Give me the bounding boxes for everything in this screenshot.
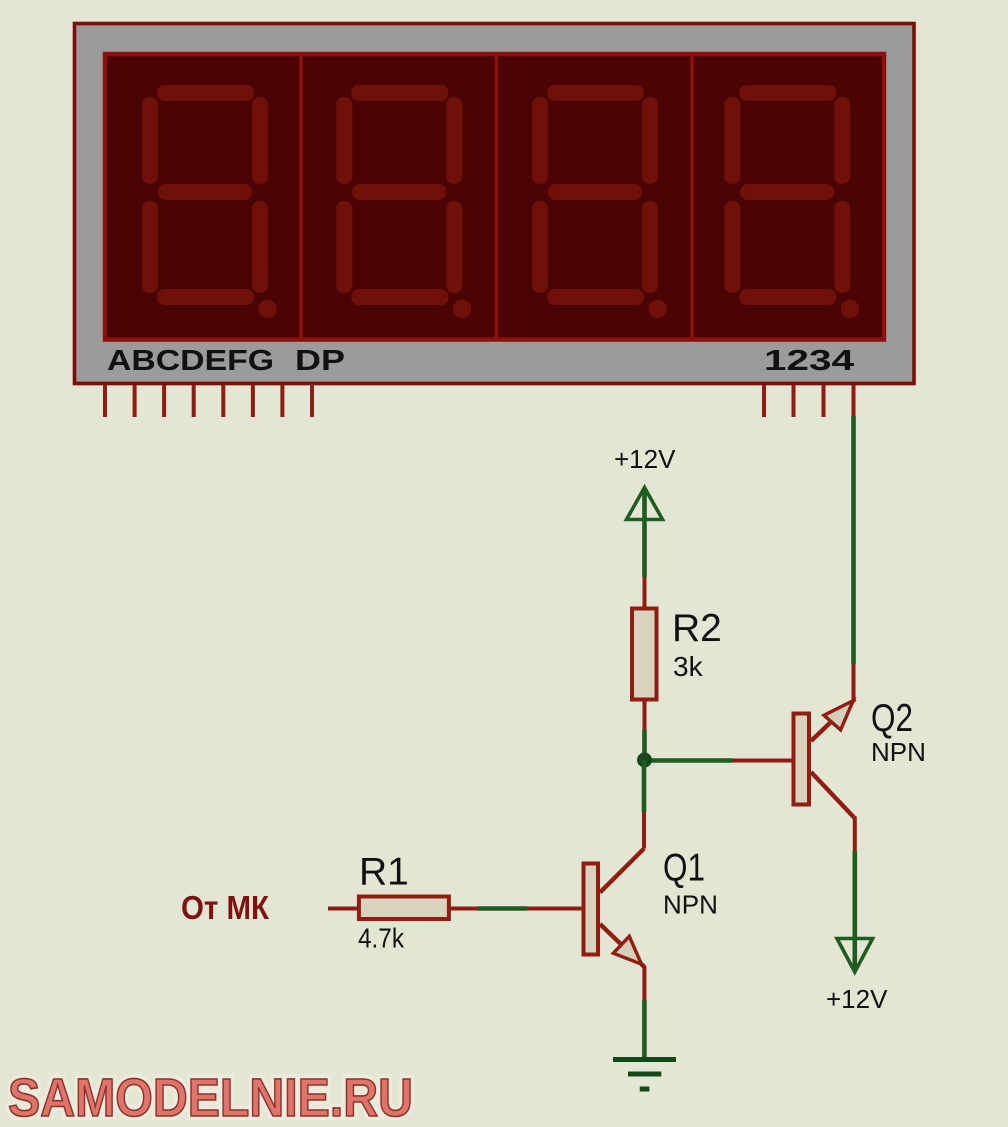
ground symbol bar 2 bbox=[628, 1072, 661, 1077]
display pin 2 bbox=[792, 385, 796, 417]
display pin 1 bbox=[762, 385, 766, 417]
transistor Q1 base pin bbox=[527, 907, 582, 911]
display pin 4 bbox=[852, 385, 856, 417]
transistor Q1 emitter diagonal bbox=[600, 924, 644, 967]
transistor Q1 base bar bbox=[584, 864, 599, 955]
svg-text:DP: DP bbox=[295, 345, 345, 377]
wire R1 to Q1 base bbox=[478, 906, 527, 911]
display pin DP bbox=[310, 385, 314, 417]
svg-text:NPN: NPN bbox=[871, 737, 926, 767]
Q1 collector pin vertical bbox=[642, 812, 646, 849]
transistor Q2 emitter diagonal bbox=[811, 699, 855, 741]
wire node to Q2 base bbox=[645, 758, 734, 763]
wire display pin4 to Q2 emitter (net) bbox=[851, 416, 856, 664]
power symbol +12V (top) arrow bbox=[627, 488, 663, 520]
transistor Q2 base bar bbox=[794, 714, 810, 805]
svg-text:NPN: NPN bbox=[663, 890, 718, 920]
display pin E bbox=[221, 385, 225, 417]
transistor Q1 emitter arrowhead bbox=[613, 936, 641, 964]
Q2 collector pin vertical bbox=[853, 817, 857, 852]
transistor Q2 base pin bbox=[733, 759, 792, 763]
svg-text:4.7k: 4.7k bbox=[358, 923, 405, 954]
7-seg digit 2 bbox=[336, 85, 471, 318]
resistor R2 bottom pin bbox=[643, 700, 647, 730]
svg-text:SAMODELNIE.RU: SAMODELNIE.RU bbox=[8, 1068, 413, 1127]
power symbol +12V (bottom) arrow bbox=[837, 939, 873, 973]
digit separator 2 bbox=[495, 54, 499, 339]
resistor R2 top pin bbox=[643, 577, 647, 607]
svg-text:R2: R2 bbox=[672, 607, 722, 650]
svg-text:3k: 3k bbox=[673, 651, 704, 682]
display pin D bbox=[192, 385, 196, 417]
resistor R2 body bbox=[632, 609, 657, 700]
svg-text:+12V: +12V bbox=[614, 444, 676, 474]
7-seg digit 3 bbox=[532, 85, 667, 318]
wire power arrow to R2 bbox=[642, 489, 647, 577]
Q1 emitter pin vertical bbox=[642, 966, 646, 1000]
7-seg digit 4 bbox=[724, 85, 859, 318]
display pin F bbox=[251, 385, 255, 417]
wire node down to Q1 collector bbox=[642, 760, 647, 812]
svg-text:Q2: Q2 bbox=[871, 697, 913, 740]
ground symbol bar 3 bbox=[640, 1087, 650, 1092]
svg-text:Q1: Q1 bbox=[663, 847, 705, 890]
resistor R1 body bbox=[359, 897, 449, 920]
Q2 emitter pin vertical segment bbox=[852, 664, 856, 700]
digit separator 1 bbox=[299, 54, 303, 339]
svg-text:ABCDEFG: ABCDEFG bbox=[107, 345, 274, 377]
svg-text:1234: 1234 bbox=[764, 345, 854, 377]
ground symbol bar 1 bbox=[613, 1057, 676, 1062]
display pin 3 bbox=[822, 385, 826, 417]
wire От МК to R1 bbox=[328, 907, 358, 911]
transistor Q2 collector diagonal bbox=[811, 772, 855, 819]
display pin G bbox=[280, 385, 284, 417]
wire Q1 emitter to ground bbox=[642, 1000, 647, 1059]
display pin B bbox=[133, 385, 137, 417]
digit separator 3 bbox=[690, 54, 694, 339]
wire Q2 collector to +12V bottom bbox=[852, 851, 857, 970]
svg-text:R1: R1 bbox=[359, 851, 409, 894]
svg-text:От МК: От МК bbox=[181, 889, 270, 926]
transistor Q1 collector diagonal bbox=[600, 849, 644, 893]
transistor Q2 emitter arrowhead bbox=[824, 701, 853, 730]
node junction bbox=[637, 753, 652, 768]
display window bbox=[105, 54, 884, 340]
wire R2 to node bbox=[642, 730, 647, 760]
7-seg digit 1 bbox=[142, 85, 277, 318]
svg-text:+12V: +12V bbox=[826, 984, 888, 1014]
resistor R1 right pin bbox=[450, 907, 478, 911]
display pin C bbox=[162, 385, 166, 417]
7-seg display module body bbox=[75, 24, 915, 384]
display pin A bbox=[103, 385, 107, 417]
